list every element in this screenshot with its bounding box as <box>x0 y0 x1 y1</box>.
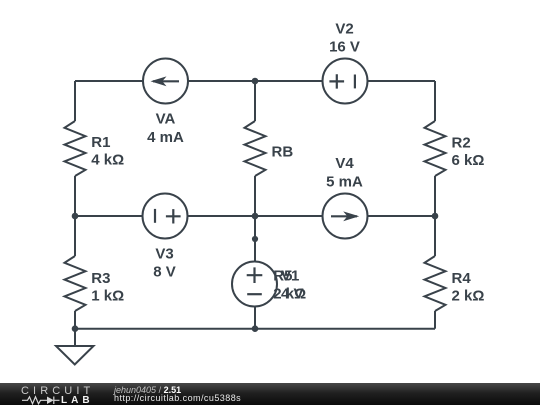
wire left rail between middle node and R3 <box>74 216 76 256</box>
svg-text:V2: V2 <box>335 21 353 38</box>
wire right rail between middle node and R4 <box>434 216 436 256</box>
voltage source V1 minus bar <box>247 293 262 295</box>
resistor R2 <box>425 121 446 176</box>
current source VA arrowhead <box>151 76 167 86</box>
wire right rail lower (R4 to bottom wire) <box>434 311 436 329</box>
svg-text:6 kΩ: 6 kΩ <box>452 152 485 169</box>
voltage source V3 plus sign <box>166 209 181 223</box>
voltage source V2 plus sign <box>329 74 344 88</box>
junction node bottom-left <box>72 325 79 332</box>
voltage source V2 minus bar <box>354 75 356 89</box>
svg-text:4 mA: 4 mA <box>147 129 184 146</box>
CircuitLab logo wordmark CIRCUIT <box>21 386 94 396</box>
svg-text:5 mA: 5 mA <box>326 173 363 190</box>
wire bottom rail <box>75 328 435 330</box>
voltage source V3 minus bar <box>154 209 156 223</box>
ground <box>56 346 94 365</box>
svg-text:R1: R1 <box>91 134 110 151</box>
junction node middle-center <box>252 213 259 220</box>
wire middle rail between middle node and V1 <box>254 216 256 262</box>
current source V4 circle <box>323 194 368 239</box>
svg-text:16 V: 16 V <box>329 39 360 56</box>
wire top-right segment V2 to right rail <box>367 80 435 82</box>
wire right rail upper (top wire to R2) <box>434 81 436 121</box>
wire top-left segment node A to VA <box>75 80 143 82</box>
svg-text:1 kΩ: 1 kΩ <box>91 288 124 305</box>
junction node R5/V1 terminal <box>252 236 258 242</box>
wire middle rail upper (top node to RB) <box>254 81 256 121</box>
svg-text:V4: V4 <box>335 155 354 172</box>
svg-text:4 V: 4 V <box>281 286 304 303</box>
wire left rail upper (top wire to R1) <box>74 81 76 121</box>
svg-text:4 kΩ: 4 kΩ <box>91 151 124 168</box>
junction node top middle <box>252 78 259 85</box>
wire left rail between R1 and middle node <box>74 176 76 216</box>
current source V4 arrowhead <box>343 211 359 221</box>
current source VA arrow shaft <box>153 80 179 82</box>
wire middle rail between RB and middle node <box>254 176 256 216</box>
footer bar <box>0 383 540 405</box>
wire middle horizontal right segment (V4 to right node) <box>367 215 435 217</box>
wire middle horizontal center segment (V3 to V4) <box>188 215 323 217</box>
voltage source V1 circle <box>232 262 277 307</box>
wire middle rail below V1 to bottom wire <box>254 307 256 329</box>
svg-text:R4: R4 <box>452 270 472 287</box>
wire right rail between R2 and middle node <box>434 176 436 216</box>
svg-text:2 kΩ: 2 kΩ <box>452 288 485 305</box>
svg-text:R2: R2 <box>452 135 471 152</box>
svg-text:V3: V3 <box>155 245 173 262</box>
svg-text:RB: RB <box>272 143 294 160</box>
CircuitLab logo resistor-diode glyph <box>0 383 100 405</box>
junction node middle-left <box>72 213 79 220</box>
voltage source V1 plus sign <box>247 267 263 283</box>
resistor R4 <box>425 256 446 311</box>
resistor RB <box>245 121 266 176</box>
current source VA circle <box>143 59 188 104</box>
junction node bottom-center <box>252 325 259 332</box>
junction node middle-right <box>432 213 439 220</box>
current source V4 arrow shaft <box>331 215 357 217</box>
svg-text:VA: VA <box>156 111 176 128</box>
svg-text:R3: R3 <box>91 270 110 287</box>
svg-text:8 V: 8 V <box>153 263 176 280</box>
wire top-middle segment VA to V2 <box>188 80 323 82</box>
resistor R3 <box>65 256 86 311</box>
wire ground stub <box>74 329 76 346</box>
CircuitLab logo wordmark LAB <box>61 396 94 405</box>
svg-text:V1: V1 <box>281 267 299 284</box>
wire left rail lower (R3 to bottom wire) <box>74 311 76 329</box>
wire middle horizontal left segment (left node to V3) <box>75 215 143 217</box>
voltage source V2 circle <box>323 59 368 104</box>
resistor R1 <box>65 121 86 176</box>
voltage source V3 circle <box>143 194 188 239</box>
